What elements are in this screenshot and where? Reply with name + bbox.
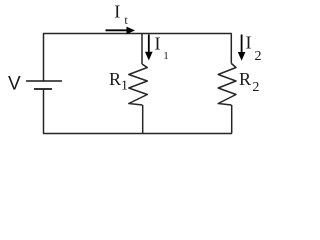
resistor R2 zigzag (218, 64, 236, 106)
svg-text:I1: I1 (155, 34, 169, 63)
svg-text:V: V (8, 74, 21, 95)
svg-text:I2: I2 (246, 33, 262, 65)
resistor R1 zigzag (129, 64, 148, 105)
current arrow I2 (down into R2 branch) (238, 35, 246, 61)
current arrow I1 (down into R1 branch) (145, 35, 153, 61)
svg-text:It: It (114, 2, 128, 28)
wire middle branch bottom stub (142, 105, 144, 134)
wire left upper (battery top lead) (43, 34, 45, 82)
current arrow It (total current, pointing right along top rail) (106, 27, 136, 35)
battery V top plate (26, 80, 62, 82)
wire middle branch top stub (141, 34, 143, 65)
svg-text:R2: R2 (239, 69, 259, 95)
wire right branch bottom stub (231, 105, 233, 134)
svg-text:R1: R1 (109, 69, 128, 94)
wire left lower (battery bottom lead) (43, 89, 45, 134)
wire right branch top stub (230, 34, 232, 64)
wire bottom rail (43, 133, 232, 135)
battery V bottom plate (34, 88, 52, 90)
wire top rail (43, 33, 232, 35)
